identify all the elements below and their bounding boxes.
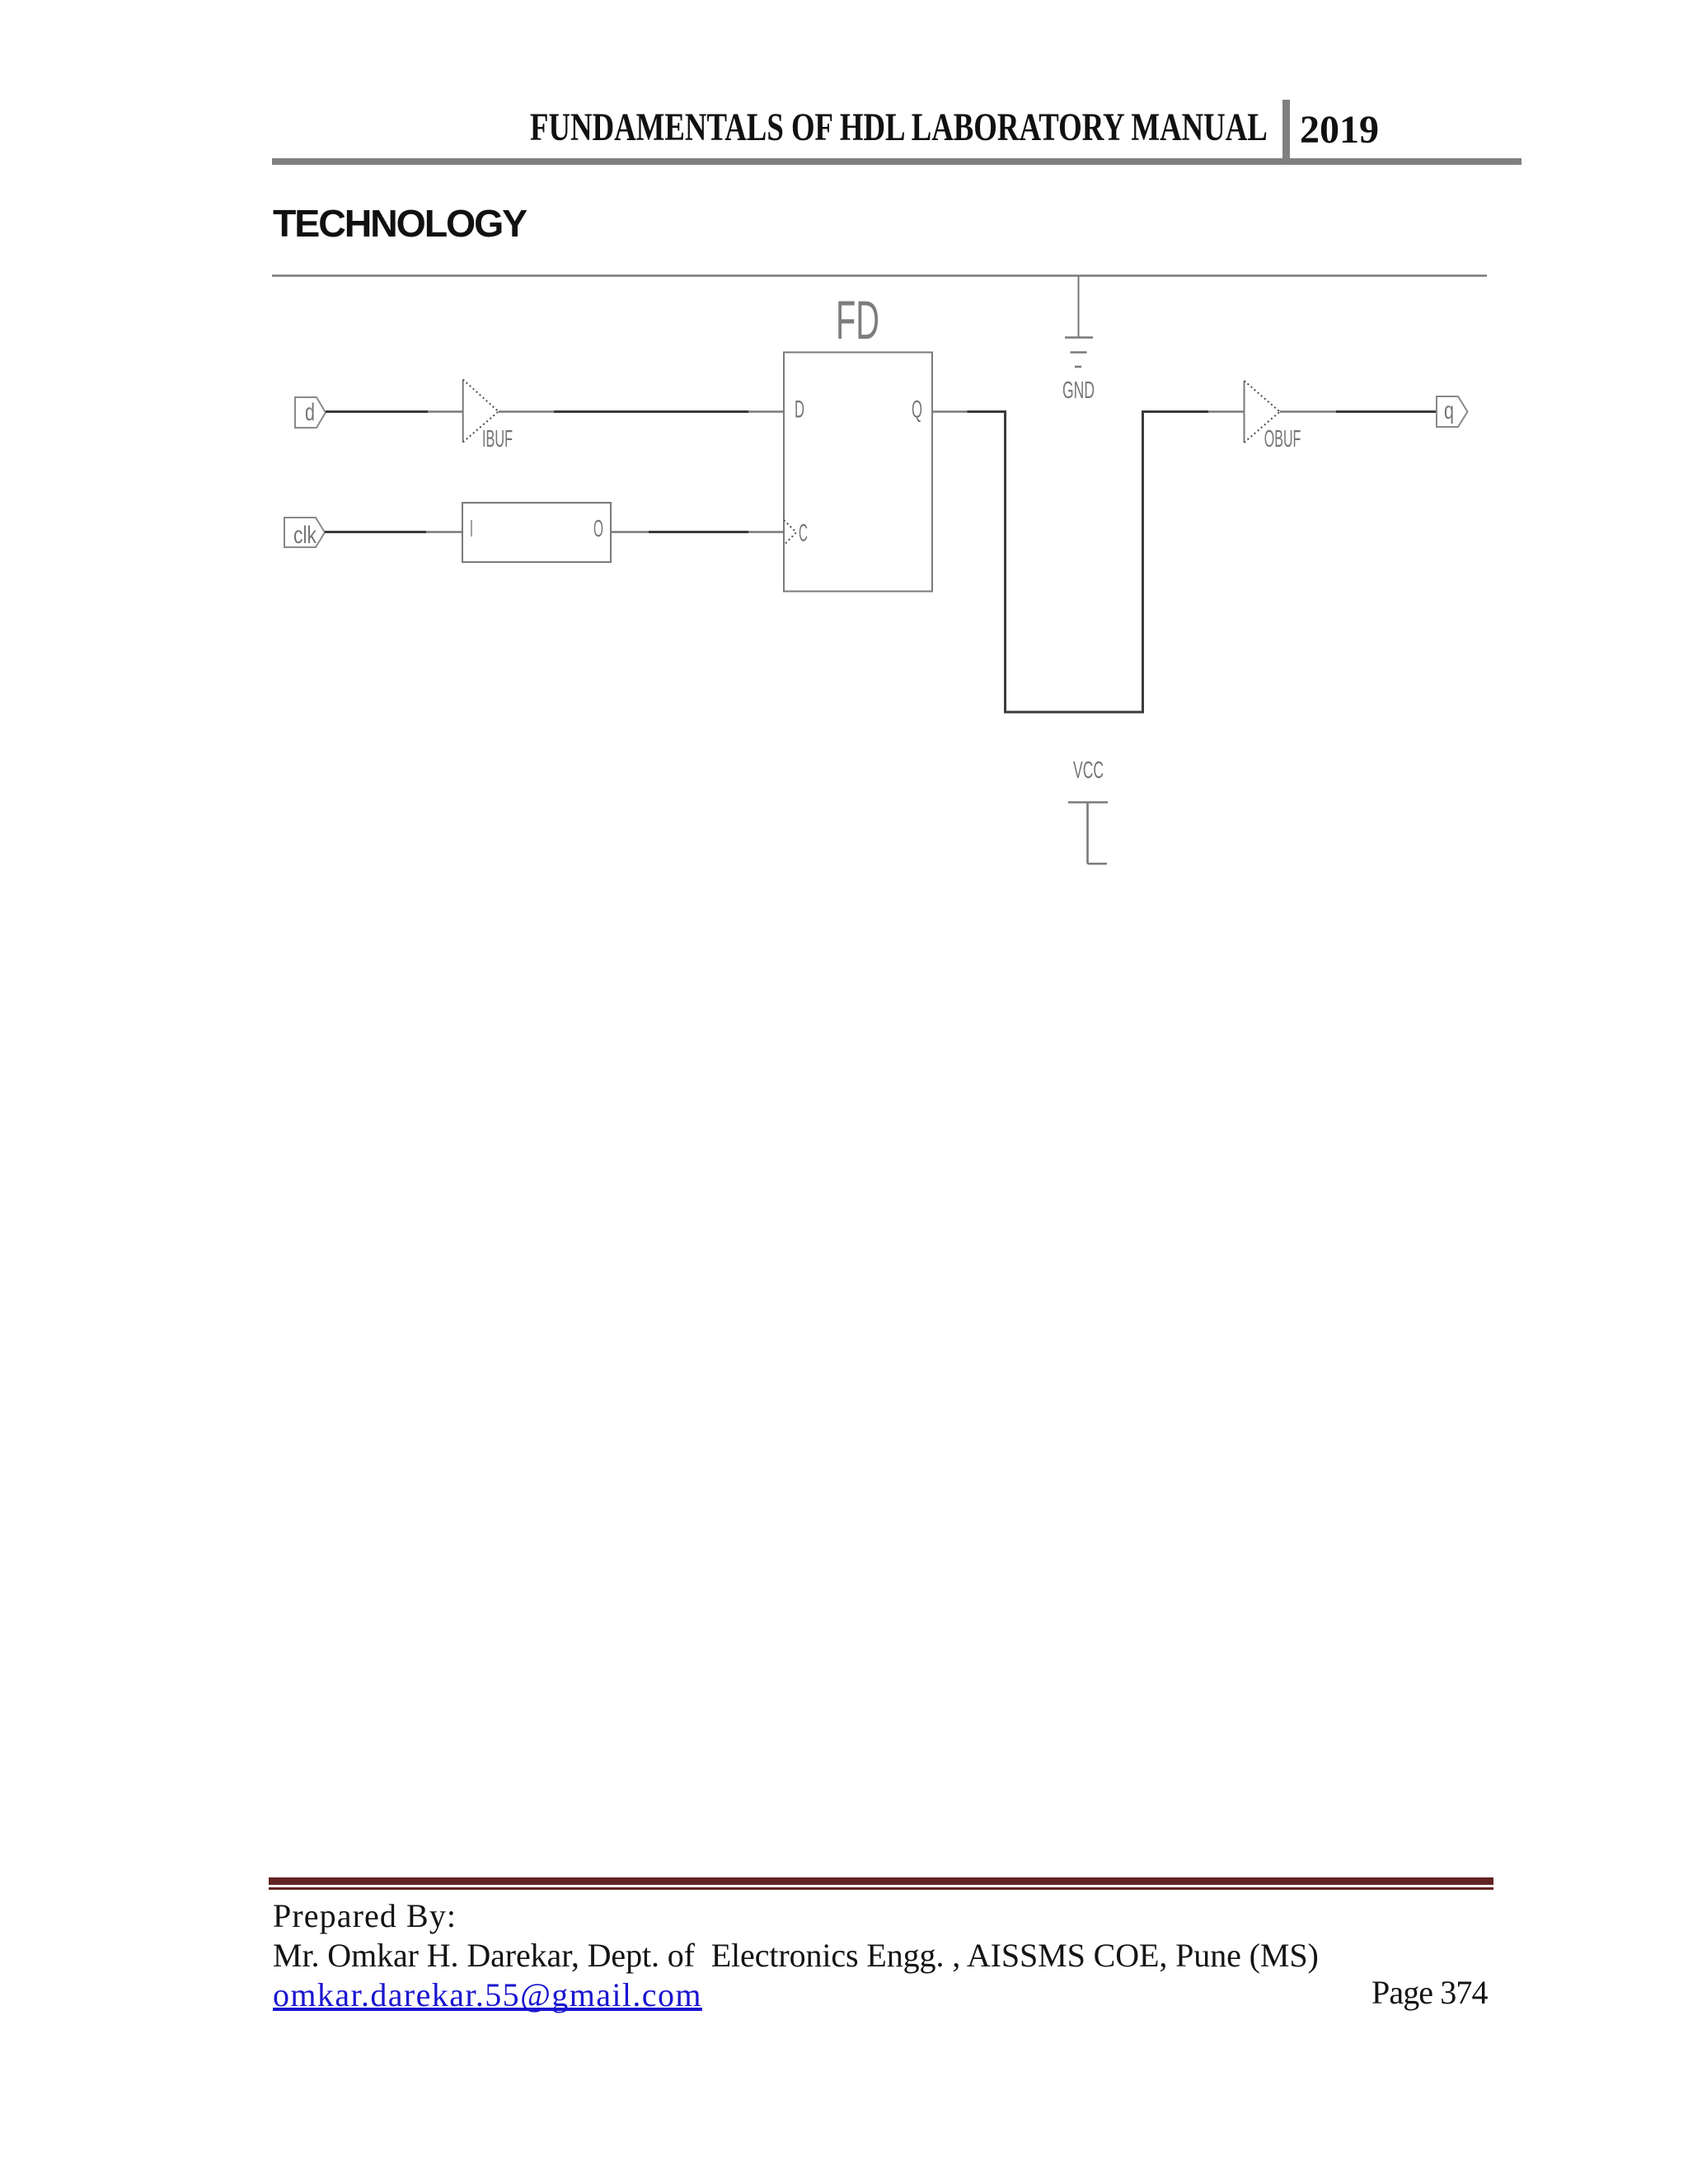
header vertical divider bar <box>1282 100 1290 165</box>
pin label I <box>470 516 473 542</box>
wire BUFGP output to FD C pin <box>611 531 784 533</box>
port q <box>1437 396 1468 427</box>
svg-text:O: O <box>593 516 603 542</box>
port d <box>295 397 326 428</box>
label IBUF <box>482 426 513 452</box>
header year 2019 <box>1300 110 1379 150</box>
svg-text:FD: FD <box>836 289 879 350</box>
svg-text:GND: GND <box>1062 377 1095 404</box>
pin label C <box>799 520 808 547</box>
pin label D <box>795 396 804 424</box>
wire OBUF output to port q <box>1280 410 1437 413</box>
svg-text:IBUF: IBUF <box>482 426 513 452</box>
clock pin chevron <box>784 520 796 546</box>
label OBUF <box>1264 426 1301 452</box>
footer maroon thin line <box>269 1887 1493 1890</box>
label clk <box>293 522 317 549</box>
wire GND stem <box>1078 276 1080 338</box>
svg-text:clk: clk <box>293 522 317 549</box>
power VCC symbol <box>1068 803 1108 865</box>
svg-text:Q: Q <box>912 396 922 424</box>
label GND <box>1062 377 1095 404</box>
label FD <box>836 289 879 350</box>
svg-text:D: D <box>795 396 804 424</box>
buffer OBUF <box>1245 381 1280 443</box>
svg-text:q: q <box>1444 397 1454 424</box>
pin label Q <box>912 396 922 424</box>
svg-text:OBUF: OBUF <box>1264 426 1301 452</box>
buffer BUFGP box <box>462 503 611 562</box>
footer maroon thick bar <box>269 1877 1493 1885</box>
svg-text:d: d <box>305 399 315 426</box>
wire IBUF output to FD D pin <box>499 410 784 413</box>
header title <box>530 108 1268 148</box>
flip-flop FD box <box>784 353 932 592</box>
footer email link <box>273 1979 702 2012</box>
wire net Q routed down and around to OBUF <box>932 412 1245 713</box>
ground GND symbol <box>1065 338 1093 368</box>
label q <box>1444 397 1454 424</box>
wire net d to IBUF <box>326 410 462 413</box>
label d <box>305 399 315 426</box>
top rail wire <box>272 274 1487 277</box>
pin label O <box>593 516 603 542</box>
svg-text:C: C <box>799 520 808 547</box>
label VCC <box>1073 757 1104 784</box>
svg-text:VCC: VCC <box>1073 757 1104 784</box>
svg-text:I: I <box>470 516 473 542</box>
section heading TECHNOLOGY <box>273 204 526 243</box>
footer page number <box>1371 1976 1488 2009</box>
footer prepared by <box>273 1900 457 1933</box>
buffer IBUF <box>463 380 499 443</box>
header horizontal rule <box>272 158 1522 165</box>
wire net clk to buffer <box>325 531 462 533</box>
port clk <box>284 518 325 547</box>
footer author line <box>273 1939 1319 1972</box>
